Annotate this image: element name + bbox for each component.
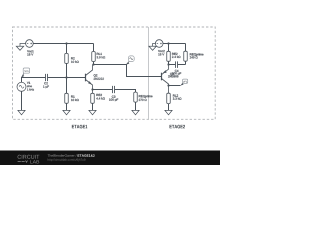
label Q3 part — [168, 75, 178, 77]
label RE2 s1 — [96, 94, 101, 96]
label Vcc2 — [158, 50, 165, 52]
wire collector out stage2 — [169, 85, 181, 87]
capacitor C2 — [46, 74, 48, 81]
resistor REQprime — [134, 92, 138, 102]
wire RE2 bottom — [92, 103, 94, 110]
node emitter Q2 — [91, 88, 93, 90]
wire top rail stage2 — [163, 43, 186, 45]
node emitter Q3 — [167, 63, 169, 65]
wire emitter bypass stage1 — [93, 89, 113, 91]
ground Vcc2 — [149, 44, 156, 51]
label Q3 — [170, 73, 174, 76]
wire RE2b top — [168, 44, 170, 52]
ground RE2 — [89, 110, 96, 114]
wire R1 bottom — [66, 103, 68, 110]
transistor Q2 npn — [86, 65, 93, 94]
capacitor C3 — [113, 86, 115, 93]
flag Vin — [22, 68, 30, 77]
wire RE2b bottom — [168, 61, 170, 64]
wire REQprime2 top — [185, 44, 187, 52]
label Vcc1 — [27, 50, 34, 52]
sine source V1 — [17, 82, 26, 91]
node R2 top — [65, 42, 67, 44]
label Q2 — [94, 74, 98, 77]
wire RL1 bottom — [93, 62, 95, 65]
label V1 — [27, 82, 30, 84]
label RL2 — [173, 95, 178, 97]
wire RL2 bottom — [168, 104, 170, 111]
ground RL2 — [165, 110, 172, 114]
wire R2 top — [66, 44, 68, 54]
label REQprime — [139, 95, 153, 98]
ground V1 — [18, 110, 25, 114]
resistor RE2 stage2 — [167, 51, 171, 61]
label RL1 — [97, 53, 102, 55]
wire C4 right — [178, 64, 186, 66]
flag VF1 output — [181, 79, 188, 85]
wire emitter bypass stage2 — [169, 64, 176, 66]
node collector Q2 — [92, 63, 94, 65]
footer url line — [48, 159, 86, 162]
resistor RL1 — [92, 52, 96, 62]
voltage source Vcc1 — [26, 40, 34, 48]
capacitor C4 — [176, 61, 178, 68]
wire base stage1 — [48, 77, 86, 79]
resistor RL2 — [167, 93, 171, 103]
label ETAGE2 — [170, 125, 185, 129]
wire collector to stage2 base — [93, 65, 162, 77]
transistor Q3 pnp — [162, 65, 169, 94]
ground Vcc1 — [16, 44, 26, 51]
label C2 — [44, 82, 48, 84]
footer bar — [0, 151, 220, 166]
wire top rail stage1 — [33, 43, 93, 45]
resistor R1 — [65, 93, 69, 103]
probe flag mid — [127, 56, 135, 65]
node collector Q3 — [167, 84, 169, 86]
divider between ETAGE1 and ETAGE2 — [148, 27, 150, 119]
resistor RE2 stage1 — [91, 93, 95, 103]
label R2 — [71, 57, 74, 59]
node base Q2 — [65, 76, 67, 78]
label C4 — [175, 70, 179, 72]
ground REQprime — [132, 110, 139, 114]
wire R2 bottom to base node — [66, 63, 68, 77]
resistor R2 — [65, 53, 69, 63]
label C3 — [112, 96, 116, 98]
wire RL1 top — [93, 44, 95, 52]
wire REQprime2 bottom — [185, 61, 187, 64]
wire V1 top — [22, 78, 46, 83]
wire V1 bottom — [21, 91, 23, 110]
stage boxes dashed border — [13, 27, 216, 119]
wire R1 top — [66, 78, 68, 94]
junction dots — [65, 42, 169, 90]
label REQprime2 — [190, 53, 204, 56]
label RE2 s2 — [172, 53, 177, 55]
logo CircuitLab — [18, 155, 40, 164]
ground R1 — [63, 110, 70, 114]
label R1 — [71, 96, 74, 98]
node rail stage2 — [167, 42, 169, 44]
wire REQprime bottom — [135, 102, 137, 110]
label ETAGE1 — [72, 125, 87, 129]
footer credit line — [48, 154, 77, 156]
voltage source Vcc2 — [155, 40, 163, 48]
wire C3 to REQprime — [115, 90, 136, 93]
resistor REQprime2 — [184, 51, 188, 61]
